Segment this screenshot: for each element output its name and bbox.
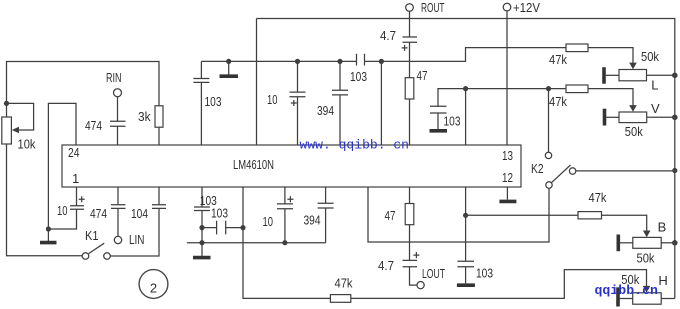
svg-text:50k: 50k bbox=[637, 250, 655, 265]
capacitor 394 (bottom) bbox=[318, 187, 334, 243]
ground symbol bottom-mid bbox=[201, 243, 203, 256]
wire top rail to IC pin bbox=[256, 19, 258, 146]
wire pin24 to ground node bbox=[48, 103, 76, 229]
capacitor 103 (right) bbox=[430, 106, 448, 131]
resistor 47 (top) bbox=[405, 78, 414, 99]
capacitor 4.7 electrolytic (ROUT) bbox=[402, 37, 417, 78]
left rail wire bbox=[7, 62, 160, 106]
junction mid-rail ground bbox=[226, 59, 231, 64]
svg-text:4.7: 4.7 bbox=[378, 258, 394, 273]
svg-text:4.7: 4.7 bbox=[380, 28, 396, 43]
svg-text:H: H bbox=[658, 273, 667, 288]
junction K2 rail bbox=[672, 168, 677, 173]
wire +12V to pin 13 bbox=[506, 11, 508, 145]
junction K2 branch bbox=[546, 86, 551, 91]
svg-text:RIN: RIN bbox=[106, 70, 122, 85]
node figure number 2 bbox=[139, 270, 168, 299]
capacitor 394 (top) bbox=[332, 61, 348, 145]
junction node rail-pin bbox=[379, 59, 384, 64]
capacitor 103 (top-left) bbox=[193, 61, 209, 145]
svg-text:3k: 3k bbox=[138, 109, 151, 124]
capacitor 10 electrolytic (pin1) bbox=[48, 187, 84, 229]
junction bass node bbox=[463, 213, 468, 218]
wire node to IC pin bbox=[380, 61, 382, 145]
wire 47k to B pot arrow bbox=[602, 215, 647, 232]
capacitor 103 chain (pin under IC) bbox=[194, 187, 210, 243]
svg-text:47k: 47k bbox=[549, 94, 567, 109]
svg-text:47k: 47k bbox=[589, 190, 607, 205]
arrowhead H bbox=[643, 286, 651, 293]
wire bass node line bbox=[466, 214, 578, 216]
capacitor 4.7 electrolytic (LOUT) bbox=[403, 252, 420, 285]
junction B pot rail bbox=[672, 240, 678, 246]
capacitor 103 series (top) bbox=[357, 54, 365, 66]
wire IC pin to bottom rail bbox=[243, 187, 330, 298]
wire 47k to V pot arrow bbox=[588, 89, 633, 107]
switch K2 bbox=[545, 152, 576, 188]
IC U1 LM4610N body bbox=[62, 145, 521, 187]
svg-text:103: 103 bbox=[444, 114, 461, 129]
wire K2 common to rail bbox=[576, 170, 675, 172]
svg-text:103: 103 bbox=[205, 94, 222, 109]
wire 47k to H pot arrow bbox=[351, 270, 647, 299]
junction series cap to pin wire bbox=[240, 225, 245, 230]
top rail and right rail wire bbox=[257, 19, 675, 299]
wire pot bottom to K1 bbox=[7, 144, 83, 256]
resistor 47k (B) bbox=[578, 212, 602, 219]
terminal LOUT bbox=[417, 282, 424, 289]
terminal +12V bbox=[503, 3, 511, 11]
junction cap10 top bbox=[295, 59, 300, 64]
svg-text:103: 103 bbox=[350, 69, 367, 84]
svg-text:LIN: LIN bbox=[129, 232, 145, 247]
junction L pot rail bbox=[672, 73, 678, 79]
svg-text:LOUT: LOUT bbox=[422, 266, 445, 281]
wire IC pin to K2 lower throw bbox=[368, 187, 549, 242]
svg-text:1: 1 bbox=[72, 171, 79, 186]
capacitor 474 (bottom) bbox=[111, 187, 126, 208]
wire treble node line bbox=[438, 89, 566, 107]
svg-text:394: 394 bbox=[317, 103, 334, 118]
switch K1 bbox=[82, 243, 110, 259]
svg-text:LM4610N: LM4610N bbox=[233, 157, 274, 172]
svg-text:103: 103 bbox=[211, 206, 228, 221]
svg-text:L: L bbox=[651, 78, 658, 93]
svg-text:+12V: +12V bbox=[513, 0, 540, 15]
svg-text:24: 24 bbox=[68, 145, 80, 160]
svg-text:10: 10 bbox=[267, 92, 278, 107]
resistor 47 (bottom) bbox=[405, 187, 414, 260]
wiper arrowhead bbox=[12, 127, 19, 134]
ground symbol left bbox=[47, 229, 49, 241]
svg-text:47k: 47k bbox=[335, 276, 353, 291]
resistor 47k (L) bbox=[566, 44, 588, 52]
node pot-top junction bbox=[4, 101, 9, 106]
svg-text:B: B bbox=[658, 220, 667, 235]
wire K2 upper throw bbox=[548, 89, 550, 153]
wire 47k to L pot arrow bbox=[588, 48, 633, 65]
potentiometer RP 10k bbox=[2, 117, 12, 144]
ground symbol pin 12 bbox=[506, 187, 508, 200]
terminal LIN bbox=[114, 236, 121, 243]
capacitor 103 series (bottom) bbox=[202, 221, 243, 235]
potentiometer V 50k bbox=[605, 109, 675, 126]
svg-text:K1: K1 bbox=[85, 228, 99, 243]
resistor 47k (V) bbox=[566, 85, 588, 93]
svg-text:47: 47 bbox=[385, 208, 396, 223]
potentiometer L 50k bbox=[604, 67, 675, 84]
svg-text:47k: 47k bbox=[549, 52, 567, 67]
svg-text:10: 10 bbox=[263, 214, 274, 229]
capacitor 104 bbox=[152, 187, 166, 208]
capacitor 474 (top) bbox=[110, 121, 126, 145]
svg-text:qqibb.cn: qqibb.cn bbox=[595, 283, 659, 298]
ground symbol mid-rail bbox=[228, 61, 230, 74]
svg-text:10: 10 bbox=[57, 203, 68, 218]
wire R47 to IC pin bbox=[409, 99, 411, 145]
arrowhead B bbox=[643, 231, 651, 238]
terminal ROUT bbox=[406, 4, 414, 12]
svg-text:V: V bbox=[651, 101, 660, 116]
wire wiper loop bbox=[7, 103, 34, 130]
junction treble node bbox=[463, 86, 468, 91]
svg-text:13: 13 bbox=[502, 148, 513, 163]
arrowhead V bbox=[629, 105, 637, 112]
svg-text:50k: 50k bbox=[625, 124, 643, 139]
svg-text:ROUT: ROUT bbox=[421, 0, 445, 15]
wire ROUT down bbox=[409, 11, 411, 37]
resistor 3k bbox=[155, 106, 163, 145]
potentiometer H 50k bbox=[618, 287, 675, 306]
wire LIN to C474 bbox=[117, 208, 119, 236]
junction V pot rail bbox=[672, 115, 678, 121]
svg-text:103: 103 bbox=[476, 266, 493, 281]
junction ground node left bbox=[46, 226, 51, 231]
svg-text:50k: 50k bbox=[641, 49, 659, 64]
svg-text:474: 474 bbox=[90, 206, 107, 221]
capacitor 10 electrolytic (top) bbox=[290, 61, 306, 145]
junction cap394 top bbox=[337, 59, 342, 64]
svg-text:10k: 10k bbox=[18, 137, 36, 152]
wire RIN to C474 top bbox=[117, 97, 119, 121]
wire treble node to IC pin bbox=[465, 89, 467, 145]
svg-text:2: 2 bbox=[150, 281, 157, 296]
junction cap10 rail bbox=[282, 240, 287, 245]
capacitor 10 electrolytic (bottom) bbox=[277, 187, 293, 243]
arrowhead L bbox=[629, 63, 637, 70]
svg-text:474: 474 bbox=[85, 118, 102, 133]
mid rail wire bbox=[201, 48, 566, 62]
wire K1 to C104 bbox=[110, 208, 159, 256]
resistor 47k (bottom) bbox=[330, 295, 350, 303]
svg-text:www. qqibb. cn: www. qqibb. cn bbox=[300, 138, 410, 153]
junction rail ground node bbox=[199, 240, 204, 245]
svg-text:12: 12 bbox=[502, 170, 513, 185]
svg-text:47: 47 bbox=[417, 68, 428, 83]
svg-text:K2: K2 bbox=[531, 161, 544, 176]
junction chain node bbox=[199, 225, 204, 230]
capacitor 103 (bottom right) bbox=[457, 187, 475, 285]
bottom rail wire bbox=[187, 242, 326, 244]
potentiometer B 50k bbox=[618, 235, 675, 252]
svg-text:394: 394 bbox=[304, 213, 321, 228]
svg-text:104: 104 bbox=[131, 206, 148, 221]
terminal RIN bbox=[114, 89, 122, 97]
